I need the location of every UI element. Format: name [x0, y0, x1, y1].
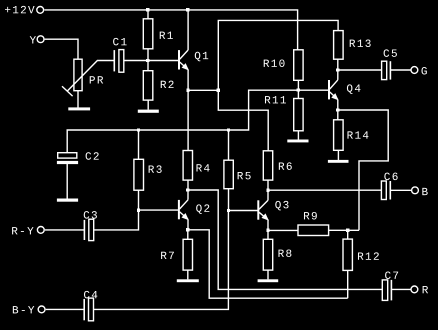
svg-text:R: R: [422, 285, 430, 297]
svg-text:G: G: [421, 66, 429, 78]
svg-text:Y: Y: [30, 36, 38, 48]
svg-text:C6: C6: [384, 172, 400, 184]
svg-text:R5: R5: [237, 171, 253, 183]
svg-text:+12V: +12V: [4, 5, 36, 17]
svg-text:R10: R10: [263, 59, 287, 71]
svg-text:R8: R8: [278, 249, 294, 261]
svg-text:Q4: Q4: [346, 84, 362, 96]
svg-text:R2: R2: [160, 80, 176, 92]
svg-text:R6: R6: [278, 162, 294, 174]
svg-text:R4: R4: [196, 163, 212, 175]
svg-text:C4: C4: [83, 290, 99, 302]
svg-text:C7: C7: [384, 271, 400, 283]
svg-text:R11: R11: [264, 95, 288, 107]
svg-text:R-Y: R-Y: [11, 226, 35, 238]
svg-text:Q3: Q3: [275, 200, 291, 212]
svg-text:PR: PR: [89, 76, 105, 88]
svg-text:R12: R12: [357, 252, 381, 264]
svg-text:Q2: Q2: [196, 204, 212, 216]
svg-text:C1: C1: [113, 37, 129, 49]
svg-text:Q1: Q1: [194, 51, 210, 63]
svg-text:C2: C2: [85, 152, 101, 164]
svg-text:C5: C5: [383, 49, 399, 61]
svg-text:C3: C3: [83, 211, 99, 223]
svg-text:R13: R13: [349, 39, 373, 51]
svg-text:R14: R14: [347, 131, 371, 143]
svg-text:B: B: [421, 187, 429, 199]
svg-text:R7: R7: [160, 251, 176, 263]
svg-text:R3: R3: [148, 165, 164, 177]
svg-text:B-Y: B-Y: [12, 305, 36, 317]
svg-text:R1: R1: [159, 31, 175, 43]
svg-text:R9: R9: [303, 211, 319, 223]
